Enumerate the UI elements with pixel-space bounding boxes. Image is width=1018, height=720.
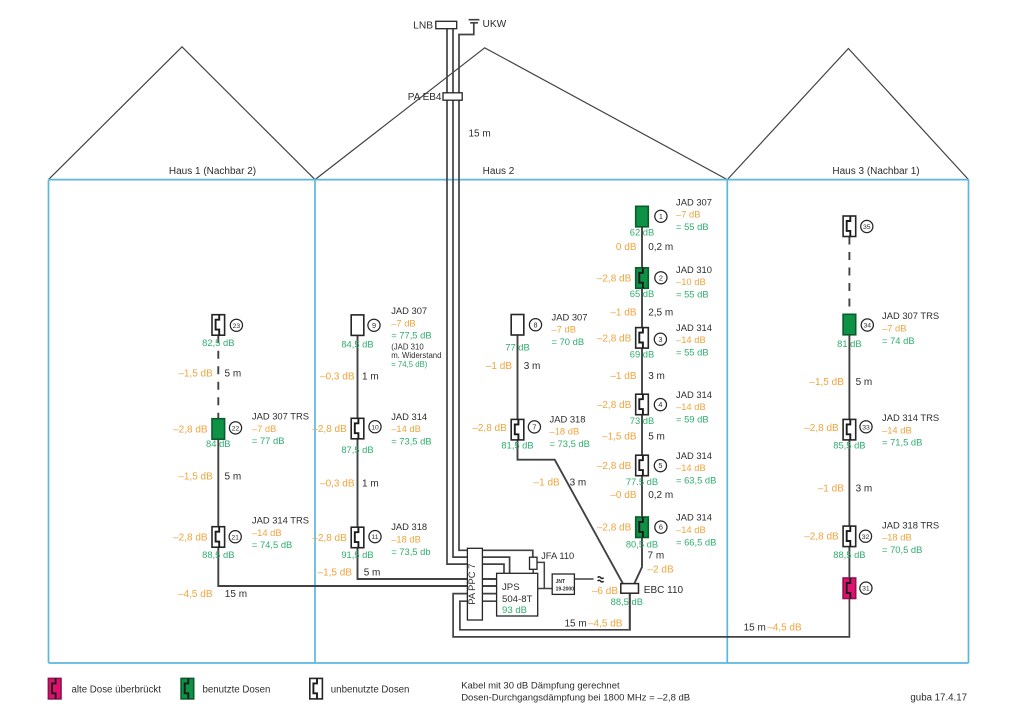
svg-text:–2 dB: –2 dB [648, 564, 674, 575]
svg-text:–4,5 dB: –4,5 dB [178, 589, 213, 600]
svg-text:JAD 310: JAD 310 [676, 264, 712, 275]
attenuation 0 dB / 0,2 m [616, 242, 673, 253]
outlet 31 (bridged old outlet) [843, 578, 856, 599]
svg-text:–2,8 dB: –2,8 dB [472, 423, 507, 434]
wire outlet4-outlet5 (5 m) [641, 415, 643, 456]
svg-text:–1 dB: –1 dB [534, 478, 560, 489]
svg-text:7 m: 7 m [648, 551, 665, 562]
svg-text:= 70 dB: = 70 dB [552, 336, 585, 347]
level 88,5 dB [202, 549, 234, 560]
wire outlet2-outlet3 (2,5 m) [641, 288, 643, 327]
outlet 34 JAD 307 TRS (used) [843, 314, 856, 335]
wire outlet32-outlet31 [848, 547, 850, 578]
svg-text:1 m: 1 m [362, 372, 379, 383]
svg-text:–1,5 dB: –1,5 dB [178, 471, 213, 482]
svg-text:–14 dB: –14 dB [676, 524, 706, 535]
svg-text:5 m: 5 m [856, 377, 873, 388]
node 33 [860, 421, 872, 433]
svg-text:JAD 307: JAD 307 [552, 311, 588, 322]
wire outlet9-outlet10 (1 m) [357, 335, 359, 418]
svg-text:JAD 307 TRS: JAD 307 TRS [882, 310, 939, 321]
label Haus 1 [169, 166, 256, 177]
legend unused outlet symbol [310, 678, 323, 699]
label JAD 307 block (outlet 8) [552, 311, 588, 347]
attenuation –2,8 dB (outlet 22) [173, 425, 208, 436]
svg-text:JAD 314 TRS: JAD 314 TRS [882, 412, 939, 423]
level 84,5 dB [341, 339, 373, 350]
svg-text:Haus 3 (Nachbar 1): Haus 3 (Nachbar 1) [832, 166, 919, 177]
svg-text:21: 21 [231, 534, 239, 541]
svg-text:= 71,5 dB: = 71,5 dB [882, 437, 922, 448]
svg-text:23: 23 [233, 323, 241, 330]
svg-text:–14 dB: –14 dB [676, 334, 706, 345]
level 69 dB [630, 348, 655, 359]
svg-text:–4,5 dB: –4,5 dB [588, 618, 623, 629]
svg-text:= 70,5 dB: = 70,5 dB [882, 544, 922, 555]
attenuation –6 dB (EBC input) [592, 586, 618, 597]
level 84 dB [206, 438, 231, 449]
svg-text:–2,8 dB: –2,8 dB [597, 461, 632, 472]
outlet 23 (unused) [212, 315, 225, 336]
legend bridged outlet symbol [48, 678, 61, 699]
svg-text:19-2000: 19-2000 [556, 586, 575, 592]
wire outlet22-outlet21 (5 m) [217, 439, 219, 527]
svg-text:–14 dB: –14 dB [676, 462, 706, 473]
wire LNB downlead (twin cable) [447, 29, 510, 574]
svg-text:Haus 1 (Nachbar 2): Haus 1 (Nachbar 2) [169, 166, 256, 177]
label 15 m –4,5 dB (EBC line) [565, 618, 623, 629]
svg-text:–14 dB: –14 dB [676, 401, 706, 412]
outlet 32 JAD 318 TRS (unused) [843, 526, 856, 547]
level 81,5 dB [501, 439, 533, 450]
svg-text:–1 dB: –1 dB [486, 361, 512, 372]
svg-text:–7 dB: –7 dB [882, 323, 907, 334]
outlet 5 JAD 314 (unused) [636, 455, 649, 476]
label EBC 110 [644, 585, 684, 596]
svg-text:–2,8 dB: –2,8 dB [173, 533, 208, 544]
level 73 dB [630, 415, 655, 426]
svg-text:15 m: 15 m [225, 589, 247, 600]
node 10 [369, 421, 381, 433]
node 32 [859, 530, 871, 542]
level 77 dB [505, 342, 530, 353]
svg-text:= 74 dB: = 74 dB [882, 335, 915, 346]
svg-text:88,5 dB: 88,5 dB [833, 549, 865, 560]
svg-text:JAD 314: JAD 314 [676, 389, 712, 400]
svg-text:JAD 314: JAD 314 [676, 512, 712, 523]
note Kabel [461, 681, 690, 704]
svg-text:62 dB: 62 dB [630, 227, 655, 238]
svg-text:7: 7 [532, 423, 536, 432]
node 22 [229, 422, 241, 434]
label JAD 318 block (outlet 11) [391, 521, 430, 557]
node 35 [861, 220, 873, 232]
attenuation –2,8 dB (outlet 4) [597, 400, 632, 411]
wire haus2 return to EBC (15 m) [460, 593, 630, 631]
outlet 2 JAD 310 (used) [636, 268, 649, 289]
legend used outlet symbol [181, 678, 194, 699]
svg-text:–1 dB: –1 dB [610, 371, 636, 382]
svg-text:3 m: 3 m [524, 361, 541, 372]
svg-text:JAD 318: JAD 318 [391, 521, 427, 532]
svg-text:–7 dB: –7 dB [676, 209, 701, 220]
svg-text:0 dB: 0 dB [616, 242, 637, 253]
roof Haus 3 [727, 49, 968, 180]
JNT 19-2000 power inserter [552, 574, 574, 594]
svg-text:JFA 110: JFA 110 [541, 550, 574, 561]
svg-text:32: 32 [862, 534, 870, 541]
node 9 [368, 319, 380, 331]
label JAD 318 block (outlet 7) [550, 413, 590, 449]
svg-text:4: 4 [658, 400, 662, 409]
node 21 [229, 531, 241, 543]
svg-text:80,5 dB: 80,5 dB [626, 538, 658, 549]
svg-text:alte Dose überbrückt: alte Dose überbrückt [72, 684, 162, 695]
svg-text:77.5 dB: 77.5 dB [626, 476, 658, 487]
svg-text:–14 dB: –14 dB [252, 527, 282, 538]
level 65 dB [630, 288, 655, 299]
label Haus 3 [832, 166, 919, 177]
wire outlet21 to amplifier (15 m) [218, 547, 496, 586]
level 80,5 dB [626, 538, 658, 549]
svg-text:22: 22 [232, 426, 240, 433]
svg-text:= 55 dB: = 55 dB [676, 221, 709, 232]
node 34 [861, 319, 873, 331]
label 15 m (downlead) [469, 128, 491, 139]
svg-text:0,2 m: 0,2 m [648, 242, 673, 253]
svg-text:–2,8 dB: –2,8 dB [804, 423, 839, 434]
attenuation –2,8 dB (outlet 5) [597, 461, 632, 472]
svg-text:= 73,5 dB: = 73,5 dB [391, 435, 431, 446]
svg-text:–2,8 dB: –2,8 dB [312, 424, 347, 435]
svg-text:84,5 dB: 84,5 dB [341, 339, 373, 350]
attenuation –2,8 dB (outlet 32) [804, 532, 839, 543]
svg-text:benutzte Dosen: benutzte Dosen [203, 684, 271, 695]
label 7 m (EBC feed) [648, 551, 665, 562]
svg-text:88,5 dB: 88,5 dB [202, 549, 234, 560]
svg-text:91,5 dB: 91,5 dB [341, 549, 373, 560]
label JAD 307 block (outlet 1) [676, 196, 712, 232]
svg-text:PA PPC 7: PA PPC 7 [466, 564, 477, 605]
wire JNT output [574, 578, 593, 580]
attenuation –1 dB / 3 m [486, 361, 541, 372]
attenuation –2,8 dB (outlet 21) [173, 533, 208, 544]
svg-text:–18 dB: –18 dB [550, 426, 580, 437]
svg-text:PA EB4: PA EB4 [408, 92, 442, 103]
attenuation –1,5 dB / 5 m (haus 3) [809, 377, 872, 388]
svg-text:15 m: 15 m [469, 128, 491, 139]
svg-text:–2,8 dB: –2,8 dB [597, 523, 632, 534]
svg-text:–2,8 dB: –2,8 dB [597, 273, 632, 284]
svg-text:–1,5 dB: –1,5 dB [602, 431, 637, 442]
svg-text:Kabel mit 30 dB Dämpfung gerec: Kabel mit 30 dB Dämpfung gerechnet [461, 681, 620, 692]
label 15 m –4,5 dB (Haus 3 line) [744, 623, 802, 634]
svg-text:5 m: 5 m [364, 567, 381, 578]
label PA EB4 [408, 92, 442, 103]
wire JPS to JNT [538, 588, 553, 590]
attenuation –2,8 dB (outlet 3) [597, 334, 632, 345]
label Haus 2 [483, 166, 515, 177]
label JAD 314 block (outlet 5) [676, 450, 716, 486]
svg-text:6: 6 [659, 523, 663, 532]
level 81 dB [837, 338, 862, 349]
svg-text:93 dB: 93 dB [502, 605, 527, 616]
label JAD 314 TRS block (outlet 33) [882, 412, 939, 448]
svg-text:–2,8 dB: –2,8 dB [173, 425, 208, 436]
svg-text:87,5 dB: 87,5 dB [341, 444, 373, 455]
svg-text:unbenutzte Dosen: unbenutzte Dosen [331, 684, 410, 695]
wire outlet1-outlet2 (0,2 m) [641, 227, 643, 268]
outlet 8 JAD 307 (unused) [511, 315, 524, 336]
node 2 [655, 272, 667, 284]
outlet 35 (unused) [843, 216, 856, 237]
label JAD 314 TRS block [252, 515, 309, 551]
attenuation –2,8 dB (outlet 7) [472, 423, 507, 434]
svg-text:Dosen-Durchgangsdämpfung bei 1: Dosen-Durchgangsdämpfung bei 1800 MHz = … [461, 693, 690, 704]
node 23 [230, 319, 242, 331]
svg-text:–1,5 dB: –1,5 dB [809, 377, 844, 388]
svg-text:= 55 dB: = 55 dB [676, 289, 709, 300]
outlet 33 JAD 314 TRS (unused) [843, 419, 856, 440]
svg-text:–2,8 dB: –2,8 dB [804, 532, 839, 543]
node 6 [655, 521, 667, 533]
svg-text:= 73,5 db: = 73,5 db [391, 546, 430, 557]
outlet 9 JAD 307 (unused) [351, 315, 364, 336]
svg-text:15 m: 15 m [744, 623, 766, 634]
svg-text:JAD 307: JAD 307 [391, 305, 427, 316]
svg-text:5 m: 5 m [225, 369, 242, 380]
wire outlet6 to EBC (7 m) [634, 538, 642, 584]
svg-text:–4,5 dB: –4,5 dB [767, 623, 802, 634]
svg-text:= 66,5 dB: = 66,5 dB [676, 536, 716, 547]
svg-text:69 dB: 69 dB [630, 348, 655, 359]
svg-text:–2,8 dB: –2,8 dB [597, 334, 632, 345]
roof Haus 1 [49, 47, 316, 180]
svg-text:EBC 110: EBC 110 [644, 585, 684, 596]
attenuation –2 dB (EBC feed) [648, 564, 674, 575]
svg-text:31: 31 [862, 586, 870, 593]
label LNB [413, 20, 433, 31]
attenuation –0,3 dB / 1 m [320, 372, 379, 383]
wire outlet23-outlet22 (dashed, 5 m) [217, 335, 219, 419]
svg-text:–18 dB: –18 dB [391, 534, 421, 545]
attenuation –1,5 dB / 5 m (column 1 feed) [318, 567, 381, 578]
label JAD 314 block (outlet 3) [676, 322, 712, 358]
wire outlet11 to amplifier (5 m) [358, 548, 497, 579]
attenuation –1 dB / 2,5 m [610, 307, 673, 318]
node 5 [654, 460, 666, 472]
EBC 110 combiner [621, 584, 639, 594]
attenuation –4,5 dB / 15 m (haus 1 feed) [178, 589, 247, 600]
outlet 21 JAD 314 TRS (unused) [212, 527, 225, 548]
svg-text:JNT: JNT [556, 579, 565, 585]
outlet 11 JAD 318 (unused) [351, 527, 364, 548]
svg-text:3 m: 3 m [648, 371, 665, 382]
signature guba 17.4.17 [910, 693, 967, 704]
attenuation –1,5 dB / 5 m [178, 369, 241, 380]
wire JFA110 bottom to JPS [532, 569, 534, 573]
svg-text:77 dB: 77 dB [505, 342, 530, 353]
svg-text:Haus 2: Haus 2 [483, 166, 515, 177]
level 87,5 dB [341, 444, 373, 455]
svg-text:73 dB: 73 dB [630, 415, 655, 426]
wire outlet7 to EBC (3 m diagonal) [518, 440, 623, 584]
svg-text:85,5 dB: 85,5 dB [833, 440, 865, 451]
node 3 [654, 333, 666, 345]
svg-text:JPS: JPS [502, 582, 520, 593]
svg-text:2,5 m: 2,5 m [648, 307, 673, 318]
attenuation –2,8 dB (outlet 2) [597, 273, 632, 284]
node 31 [860, 582, 872, 594]
level 62 dB [630, 227, 655, 238]
svg-text:–1,5 dB: –1,5 dB [178, 369, 213, 380]
wire outlet34-outlet33 (5 m) [848, 335, 850, 420]
wire to Haus 3 (15 m) [453, 594, 849, 637]
svg-text:LNB: LNB [413, 20, 433, 31]
node 8 [529, 319, 541, 331]
svg-text:11: 11 [371, 534, 378, 541]
level 85,5 dB [833, 440, 865, 451]
level 91,5 dB [341, 549, 373, 560]
svg-text:–10 dB: –10 dB [676, 276, 706, 287]
label JAD 310 block (outlet 2) [676, 264, 712, 300]
svg-text:5 m: 5 m [648, 431, 665, 442]
svg-text:–1,5 dB: –1,5 dB [318, 567, 353, 578]
label JAD 307 TRS block (outlet 34) [882, 310, 939, 346]
wire JFA110 output to JNT [537, 562, 544, 588]
svg-text:3: 3 [658, 335, 662, 344]
svg-text:0,2 m: 0,2 m [648, 490, 673, 501]
svg-text:35: 35 [863, 224, 871, 231]
svg-text:5: 5 [658, 461, 662, 470]
svg-text:–14 dB: –14 dB [882, 424, 912, 435]
level 77.5 dB [626, 476, 658, 487]
svg-text:–0,3 dB: –0,3 dB [320, 372, 355, 383]
svg-text:= 74,5 dB: = 74,5 dB [252, 539, 292, 550]
wire outlet8-outlet7 (3 m) [517, 335, 519, 419]
svg-text:5 m: 5 m [225, 471, 242, 482]
node 4 [654, 399, 666, 411]
svg-text:81 dB: 81 dB [837, 338, 862, 349]
legend label benutzte Dosen [203, 684, 271, 695]
svg-text:= 73,5 dB: = 73,5 dB [550, 438, 590, 449]
attenuation –1 dB / 3 m (haus 3) [818, 484, 873, 495]
svg-text:JAD 314: JAD 314 [676, 450, 712, 461]
attenuation –2,8 dB (outlet 11) [312, 533, 347, 544]
node 1 [655, 210, 667, 222]
UKW dipole antenna symbol [469, 20, 480, 23]
LNB antenna box [436, 21, 457, 28]
svg-text:–7 dB: –7 dB [552, 324, 577, 335]
svg-text:UKW: UKW [483, 19, 507, 30]
svg-text:9: 9 [372, 321, 376, 330]
svg-text:= 74,5 dB): = 74,5 dB) [391, 360, 428, 369]
svg-text:–1 dB: –1 dB [610, 307, 636, 318]
wire outlet35-outlet34 (dashed) [848, 237, 850, 315]
JPS 504-8T amplifier [497, 573, 538, 616]
svg-text:JAD 307 TRS: JAD 307 TRS [252, 411, 309, 422]
svg-text:JAD 307: JAD 307 [676, 196, 712, 207]
svg-text:3 m: 3 m [570, 478, 587, 489]
wire outlet3-outlet4 (3 m) [641, 348, 643, 394]
svg-text:1 m: 1 m [362, 479, 379, 490]
outlet 7 JAD 318 (unused) [511, 419, 524, 440]
mains break symbol [598, 577, 604, 582]
svg-text:1: 1 [659, 212, 663, 221]
outlet 22 JAD 307 TRS (used) [212, 419, 225, 440]
outlet 10 JAD 314 (unused) [351, 418, 364, 439]
JFA 110 filter [530, 557, 538, 569]
wire outlet5-outlet6 (0,2 m) [641, 476, 643, 517]
svg-text:= 77,5 dB: = 77,5 dB [391, 330, 431, 341]
attenuation –1 dB / 3 m (cascade) [610, 371, 665, 382]
svg-text:8: 8 [533, 320, 537, 329]
svg-text:JAD 314 TRS: JAD 314 TRS [252, 515, 309, 526]
attenuation –2,8 dB (outlet 6) [597, 523, 632, 534]
level 88,5 dB (haus 3) [833, 549, 865, 560]
svg-text:–7 dB: –7 dB [252, 423, 277, 434]
svg-text:JAD 314: JAD 314 [676, 322, 712, 333]
svg-text:3 m: 3 m [856, 484, 873, 495]
svg-text:88,5 dB: 88,5 dB [611, 596, 643, 607]
attenuation –1 dB / 3 m (diagonal) [534, 478, 587, 489]
attenuation –1,5 dB / 5 m (cascade) [602, 431, 665, 442]
label JAD 310 m. Widerstand note [391, 343, 441, 369]
svg-text:82,5 dB: 82,5 dB [202, 337, 234, 348]
label JAD 318 TRS block (outlet 32) [882, 519, 939, 555]
svg-text:–2,8 dB: –2,8 dB [597, 400, 632, 411]
legend label alte Dose überbrückt [72, 684, 162, 695]
label JAD 314 block (outlet 6) [676, 512, 716, 548]
outlet 6 JAD 314 (used) [636, 517, 649, 538]
svg-text:–14 dB: –14 dB [391, 423, 421, 434]
svg-text:15 m: 15 m [565, 618, 587, 629]
outlet 4 JAD 314 (unused) [636, 394, 649, 415]
wire outlet10-outlet11 (1 m) [357, 439, 359, 527]
label JFA 110 [541, 550, 574, 561]
label JAD 314 block (outlet 4) [676, 389, 712, 425]
attenuation –1,5 dB / 5 m (second) [178, 471, 241, 482]
svg-text:JAD 314: JAD 314 [391, 411, 427, 422]
svg-text:–0 dB: –0 dB [610, 490, 636, 501]
attenuation –2,8 dB (outlet 10) [312, 424, 347, 435]
svg-text:34: 34 [864, 323, 872, 330]
svg-text:81,5 dB: 81,5 dB [501, 439, 533, 450]
legend label unbenutzte Dosen [331, 684, 410, 695]
svg-text:2: 2 [659, 273, 663, 282]
outlet 3 JAD 314 (unused) [636, 328, 649, 349]
wire UKW downlead [459, 24, 533, 558]
label JAD 314 block (outlet 10) [391, 411, 431, 447]
svg-text:504-8T: 504-8T [502, 594, 533, 605]
label JAD 307 TRS block [252, 411, 309, 447]
PA PPC 7 earthing block [466, 548, 483, 620]
node 11 [369, 531, 381, 543]
svg-text:–1 dB: –1 dB [818, 484, 844, 495]
node 7 [528, 421, 540, 433]
label JAD 307 block [391, 305, 431, 341]
label UKW [483, 19, 507, 30]
svg-text:–18 dB: –18 dB [882, 532, 912, 543]
svg-text:JAD 318: JAD 318 [550, 413, 586, 424]
attenuation –0,3 dB / 1 m (second) [320, 479, 379, 490]
level 82,5 dB [202, 337, 234, 348]
svg-text:–0,3 dB: –0,3 dB [320, 479, 355, 490]
attenuation –2,8 dB (outlet 33) [804, 423, 839, 434]
house boundary frame (cyan) [49, 180, 969, 663]
svg-text:= 59 dB: = 59 dB [676, 414, 709, 425]
outlet 1 JAD 307 (used) [636, 206, 649, 227]
